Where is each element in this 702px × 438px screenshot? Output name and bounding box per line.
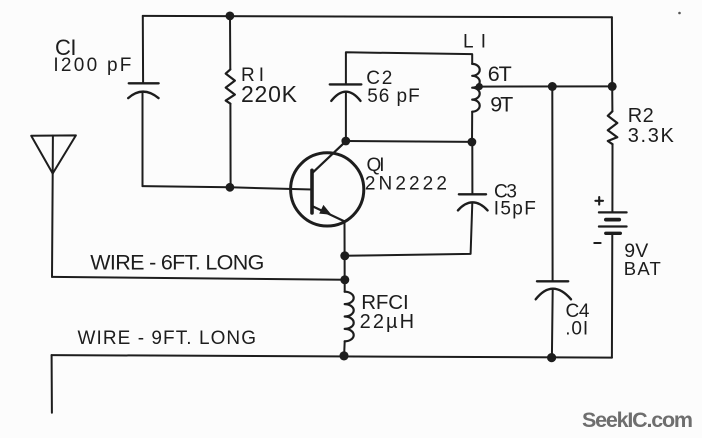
- svg-text:BAT: BAT: [624, 258, 661, 279]
- svg-text:I5pF: I5pF: [494, 199, 536, 220]
- svg-text:I200 pF: I200 pF: [53, 55, 131, 76]
- svg-text:R2: R2: [628, 105, 654, 127]
- wire emitter drop: [344, 222, 346, 292]
- node junction collector: [341, 137, 350, 146]
- svg-text:SeekIC.com: SeekIC.com: [582, 408, 693, 432]
- svg-text:9T: 9T: [490, 93, 513, 117]
- wire 9ft left drop: [51, 355, 53, 413]
- svg-text:.0I: .0I: [565, 319, 588, 340]
- node junction C4 top: [548, 82, 557, 91]
- battery BT1 plus sign: [595, 197, 603, 205]
- svg-text:22µH: 22µH: [360, 311, 415, 333]
- capacitor C1: [128, 83, 158, 98]
- svg-text:220K: 220K: [241, 81, 298, 107]
- node junction emitter antenna: [340, 275, 349, 284]
- svg-text:LI: LI: [463, 32, 486, 53]
- capacitor C3: [458, 194, 488, 210]
- battery BT1 minus sign: [594, 242, 600, 244]
- svg-text:56 pF: 56 pF: [367, 86, 420, 107]
- wire tank bottom: [346, 140, 472, 143]
- wire C1 branch bottom: [142, 92, 144, 186]
- wire C3 return to emitter: [345, 203, 472, 256]
- wire C1 branch top: [142, 16, 144, 83]
- node junction C4 ground: [547, 353, 556, 362]
- antenna ANT1: [31, 135, 76, 173]
- wire C3 branch top: [471, 142, 473, 194]
- wire base rail: [143, 186, 313, 189]
- svg-text:6T: 6T: [488, 62, 512, 86]
- node junction emitter C3: [340, 251, 349, 260]
- inductor L1: [472, 64, 480, 112]
- battery BT1 9V: [599, 212, 627, 233]
- svg-text:3.3K: 3.3K: [628, 125, 675, 147]
- wire ground rail and 9ft wire: [52, 355, 612, 358]
- node L1 tap: [476, 83, 483, 90]
- wire C2 branch bottom: [345, 92, 347, 141]
- wire battery to ground rail: [611, 233, 613, 357]
- resistor R1: [226, 69, 235, 103]
- wire C4 branch bottom: [551, 289, 554, 358]
- capacitor C2: [330, 84, 362, 101]
- resistor R2: [608, 111, 618, 144]
- wire C4 branch top: [551, 87, 553, 282]
- svg-text:2N2222: 2N2222: [365, 174, 447, 195]
- wire R1 branch bottom: [229, 104, 231, 188]
- wire antenna lead: [51, 174, 54, 277]
- node junction R2: [608, 82, 617, 91]
- svg-text:WIRE - 6FT. LONG: WIRE - 6FT. LONG: [90, 251, 264, 275]
- node junction R1 bottom: [226, 183, 235, 192]
- inductor RFC1: [345, 292, 354, 342]
- wire right supply drop: [611, 17, 614, 111]
- wire R2 to battery: [611, 144, 613, 212]
- node junction R1 top: [226, 12, 235, 21]
- wire L1 tap to supply: [479, 85, 612, 87]
- node junction tank bottom right: [468, 138, 477, 147]
- speck top right: [678, 12, 681, 15]
- svg-text:WIRE - 9FT. LONG: WIRE - 9FT. LONG: [78, 328, 257, 349]
- wire 6ft antenna wire: [52, 277, 345, 280]
- node junction RFC1 ground: [339, 351, 348, 360]
- wire C2 branch top and tank top: [346, 52, 472, 84]
- wire L1 bottom: [471, 112, 473, 142]
- transistor Q1: [291, 141, 364, 226]
- capacitor C4: [536, 281, 571, 299]
- wire R1 branch top: [229, 16, 231, 70]
- wire RFC1 bottom: [343, 341, 346, 356]
- wire top supply rail: [143, 16, 612, 17]
